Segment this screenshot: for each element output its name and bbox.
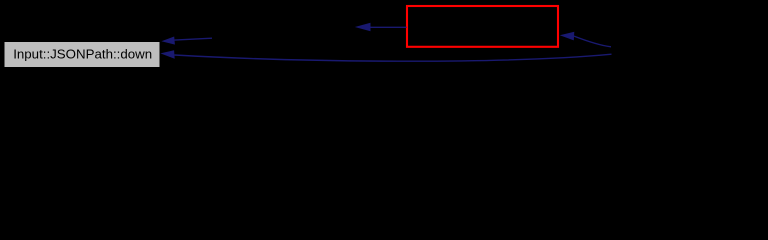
node Input::JSONPath::down [4, 42, 160, 68]
edge: hidden node 2 -> down (long sagging curve) [160, 50, 611, 61]
edge: hidden node 1 -> down (upper arrow) [161, 37, 212, 45]
edge: hidden node 2 -> red box (right arrow) [560, 32, 611, 47]
truncated node (red box) [407, 6, 558, 47]
edge: red box -> hidden node 1 (middle arrow) [355, 23, 407, 32]
svg-text:Input::JSONPath::down: Input::JSONPath::down [13, 47, 152, 62]
